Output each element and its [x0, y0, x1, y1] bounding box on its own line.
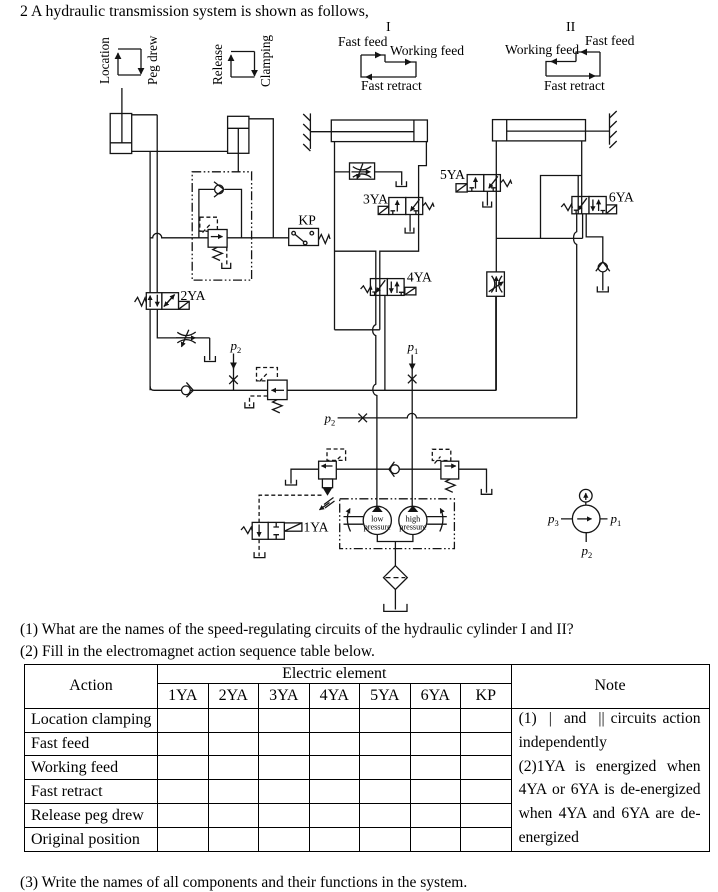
- wire: cylinder I left port down: [334, 142, 336, 330]
- unloading valve V3: [319, 461, 337, 479]
- valve 1YA label: [304, 520, 329, 535]
- gauge point p2 left: [229, 338, 241, 390]
- unloading valve V3 pilot (dashed): [327, 449, 346, 464]
- pressure switch KP: [289, 213, 330, 246]
- svg-text:6YA: 6YA: [609, 189, 634, 204]
- svg-text:II: II: [566, 20, 576, 35]
- svg-text:Working feed: Working feed: [505, 42, 579, 57]
- wire: high pressure pump line (hops p2 line): [411, 390, 413, 506]
- valve 6YA: [561, 197, 606, 214]
- svg-text:Peg drew: Peg drew: [145, 35, 160, 85]
- wire: 3YA line corner to 4YA feed: [335, 251, 376, 278]
- wire: main line: [150, 296, 496, 390]
- throttle valve F3 (boxed, vertical, cylinder II): [487, 272, 505, 296]
- wire: clamp cylinder top port to 2YA line: [132, 114, 158, 116]
- gauge point p2 line: [324, 411, 578, 428]
- wire: check valve branch in enclosure: [199, 189, 242, 237]
- pump low pressure: [344, 505, 392, 534]
- wire: cylinder I right port to 3YA: [380, 142, 427, 279]
- unloading valve V3 vent (solid triangle + zigzag): [320, 479, 335, 510]
- svg-text:3: 3: [555, 518, 559, 528]
- cylinder clamp (vertical, left): [110, 114, 132, 154]
- relief valve V4 pilot (dashed): [432, 449, 451, 463]
- sequence valve V2 (main line): [268, 380, 288, 413]
- wall anchor left: [303, 113, 310, 151]
- valve 2YA: [135, 293, 179, 310]
- wire: 4YA right port down to cylinder I line: [335, 295, 380, 329]
- svg-text:pressure: pressure: [399, 523, 427, 532]
- filter: [384, 566, 408, 590]
- question 1: [20, 621, 574, 639]
- svg-text:2: 2: [237, 345, 241, 355]
- wire: low pressure pump line (hops main line): [373, 295, 377, 506]
- valve 6YA solenoid: [606, 205, 616, 214]
- cycle diagram I: [338, 20, 464, 93]
- wire: sequence valve feed line to KP: [150, 233, 289, 238]
- svg-text:3YA: 3YA: [363, 191, 388, 206]
- sequence valve V1 drain (dashed) with tank: [222, 247, 231, 268]
- tank T5: [205, 356, 216, 362]
- wire: relief valve outlet to tank: [459, 469, 492, 494]
- valve 1YA solenoid: [284, 523, 302, 531]
- relief valve V4: [441, 461, 459, 492]
- valve 5YA: [467, 175, 512, 192]
- wire: 6YA port to check valve: [586, 214, 603, 263]
- check valve C1 (in enclosure): [214, 182, 224, 197]
- wire: return line to check valve: [496, 237, 582, 239]
- throttle valve F1 (boxed, cylinder I): [350, 163, 375, 179]
- valve 3YA solenoid: [378, 206, 389, 214]
- wire: p2 supply through 6YA (hops return line): [574, 214, 577, 418]
- wire: cylinder II left port through 5YA down to main line: [495, 141, 497, 390]
- throttle valve F2 (2YA branch): [176, 330, 210, 360]
- cylinder II (horizontal): [493, 120, 610, 141]
- valve 6YA label: [609, 189, 634, 204]
- valve 1YA: [241, 522, 284, 539]
- title: [20, 3, 369, 21]
- svg-text:Clamping: Clamping: [258, 35, 273, 87]
- cylinder I (horizontal): [331, 120, 427, 142]
- wire: pump suction merge: [377, 535, 413, 566]
- valve 5YA label: [440, 167, 465, 182]
- valve 4YA: [361, 279, 405, 296]
- wire: clamp cylinder bottom port line to peg cylinder: [132, 150, 229, 152]
- wire: cylinder II right port and bypass: [541, 141, 582, 238]
- svg-text:Fast feed: Fast feed: [585, 33, 635, 48]
- wire: 2YA branch to throttle: [157, 309, 209, 338]
- cycle diagram: release/clamping: [210, 35, 273, 87]
- sequence valve V1: [208, 230, 227, 261]
- valve 3YA drain to tank: [405, 215, 414, 234]
- cycle diagram: location/peg drew: [97, 35, 160, 85]
- svg-text:1: 1: [414, 346, 418, 356]
- valve 2YA solenoid: [179, 301, 190, 309]
- cycle diagram II: [505, 20, 635, 93]
- question 3: [20, 874, 467, 892]
- sequence valve V1 pilot (dashed box): [200, 217, 218, 232]
- check valve C4 (between pumps): [389, 462, 399, 477]
- wire: vertical line A (clamp bottom to 2YA and pump line): [149, 151, 151, 390]
- svg-text:I: I: [386, 20, 391, 35]
- wire: peg cylinder top port: [249, 119, 273, 238]
- svg-text:Fast retract: Fast retract: [361, 78, 422, 93]
- check valve C2 (main line): [182, 382, 194, 397]
- check valve C3: [596, 262, 610, 291]
- valve 2YA label: [181, 288, 206, 303]
- svg-text:2: 2: [588, 550, 592, 560]
- svg-text:Fast feed: Fast feed: [338, 34, 388, 49]
- valve 3YA: [389, 198, 434, 215]
- wall anchor right: [610, 111, 617, 148]
- wire: clamp cylinder rod: [121, 88, 123, 142]
- svg-text:4YA: 4YA: [407, 269, 432, 284]
- valve 5YA drain to tank: [483, 191, 492, 207]
- svg-text:5YA: 5YA: [440, 167, 465, 182]
- question 2: [20, 643, 375, 661]
- wire: vertical line B (clamp top to 2YA, throttle): [156, 115, 158, 309]
- svg-text:Working feed: Working feed: [390, 43, 464, 58]
- valve 4YA label: [407, 269, 432, 284]
- svg-text:Location: Location: [97, 37, 112, 84]
- wire: cylinder I rod: [310, 131, 331, 133]
- tank T4: [597, 286, 608, 292]
- valve 4YA solenoid: [405, 287, 416, 295]
- dash-dot enclosure (stroke-controlled unit): [192, 172, 251, 280]
- pressure gauge with selector: [547, 489, 621, 560]
- cylinder peg (small, vertical): [228, 116, 249, 172]
- svg-text:2: 2: [331, 418, 335, 428]
- svg-text:Fast retract: Fast retract: [544, 78, 605, 93]
- svg-text:KP: KP: [298, 213, 316, 228]
- wire: relief line: [336, 468, 441, 470]
- gauge point p1: [407, 339, 419, 390]
- wire: relief line left end to tank: [286, 469, 319, 485]
- wire: filter to tank: [394, 590, 396, 610]
- sequence valve V2 drain (dashed) with tank: [245, 396, 268, 408]
- wire: 4YA port to main line: [384, 295, 386, 390]
- tank T10 (1YA drain): [254, 552, 265, 558]
- electromagnet action sequence table: [24, 664, 710, 852]
- valve 5YA solenoid: [456, 184, 467, 192]
- sequence valve V2 pilot (dashed): [257, 368, 278, 382]
- svg-text:pressure: pressure: [364, 523, 392, 532]
- pilot vent line (dashed) to 1YA: [259, 495, 321, 556]
- wire: 6YA to return line: [582, 214, 584, 239]
- svg-text:1: 1: [617, 518, 621, 528]
- wire: cylinder I meter-out branch: [335, 172, 402, 185]
- svg-text:Release: Release: [210, 44, 225, 85]
- pump unit dash-dot enclosure: [340, 499, 455, 549]
- svg-text:1YA: 1YA: [304, 520, 329, 535]
- svg-text:2YA: 2YA: [181, 288, 206, 303]
- tank T1 (throttle I drain): [396, 181, 406, 186]
- tank T11 (main suction): [384, 604, 407, 612]
- valve 3YA label: [363, 191, 388, 206]
- pump high pressure: [399, 505, 447, 534]
